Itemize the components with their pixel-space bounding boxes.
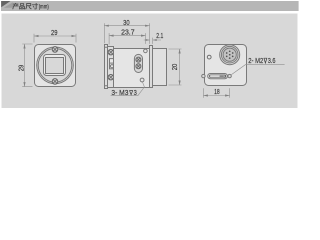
page background <box>0 0 300 112</box>
dimension texts <box>17 18 276 97</box>
svg-text:30: 30 <box>123 18 130 27</box>
arrowheads <box>23 25 229 97</box>
dim 30: line <box>104 25 149 27</box>
side screw top <box>108 50 113 55</box>
leader 2-M2 <box>231 65 285 75</box>
header title 产品尺寸 <box>12 3 38 10</box>
arrows dim23.7 <box>109 35 114 37</box>
dim 20: line <box>179 49 181 85</box>
leader 3-M3 <box>111 82 145 96</box>
svg-text:3- M3: 3- M3 <box>111 88 128 97</box>
dim 30: ext lines <box>104 23 149 44</box>
lens barrel <box>153 49 167 86</box>
dim 2.1: ext line <box>152 38 154 44</box>
dim 18: ext lines <box>203 88 229 98</box>
svg-text:3: 3 <box>134 88 137 97</box>
side recess rect <box>110 59 115 69</box>
side recess hole <box>110 65 113 68</box>
svg-text:20: 20 <box>170 64 179 71</box>
svg-text:29: 29 <box>51 28 58 37</box>
dim 29 top: ext lines <box>34 34 76 43</box>
arrows dim29 left <box>23 44 25 49</box>
content panel <box>2 14 298 109</box>
dim 29 left: ext lines <box>22 44 32 87</box>
lens mount inner ring <box>38 49 72 83</box>
svg-text:2.1: 2.1 <box>156 31 163 40</box>
connector face <box>223 48 236 61</box>
dim 29 left: line <box>24 44 26 87</box>
svg-text:2- M2: 2- M2 <box>248 56 263 65</box>
front body square <box>35 45 76 87</box>
back cover plate <box>105 45 108 89</box>
arrows dim20 <box>179 49 181 54</box>
dim 2.1: tails <box>144 39 161 41</box>
header icon <box>1 1 10 7</box>
side screw bottom <box>108 75 113 80</box>
lens mount outer circle <box>37 47 74 84</box>
arrows dim29 top <box>34 35 39 37</box>
dim 29 top: line <box>34 35 76 37</box>
screw section <box>108 47 114 88</box>
svg-text:(mm): (mm) <box>39 4 49 11</box>
dim 18: line <box>203 95 229 97</box>
obround slot <box>134 54 142 72</box>
M2 screw left <box>202 74 205 77</box>
depth symbol for 2- M2v3.6 <box>264 58 268 63</box>
connector outer circle <box>220 45 240 65</box>
arrows dim30 <box>104 25 109 27</box>
slot screw bottom <box>136 64 141 69</box>
M3 hole top <box>144 49 148 53</box>
M2 screw right <box>228 74 231 77</box>
screw top <box>52 47 58 53</box>
M3 hole bottom <box>140 78 144 82</box>
LED hole <box>207 55 211 59</box>
slot screw top <box>136 57 141 62</box>
svg-text:23.7: 23.7 <box>121 28 135 37</box>
usb connector dark body <box>209 75 226 78</box>
svg-text:18: 18 <box>214 87 220 96</box>
svg-text:3.6: 3.6 <box>268 56 276 65</box>
dim 23.7: ext lines <box>109 33 145 44</box>
mount window rounded square <box>44 55 66 76</box>
dim 20: ext lines <box>169 49 182 85</box>
header bar <box>1 1 299 11</box>
back square <box>205 45 247 86</box>
dim 23.7: line <box>109 35 145 37</box>
arrows dim2.1 <box>146 39 150 41</box>
sensor rect <box>46 58 64 74</box>
main body <box>114 49 150 88</box>
usb connector outline <box>208 74 228 79</box>
connector pins <box>226 50 234 59</box>
usb contacts <box>210 75 225 77</box>
screw bottom <box>52 79 58 85</box>
depth symbol for 3- M3v3 <box>129 58 267 95</box>
svg-text:29: 29 <box>17 65 26 72</box>
front plate <box>150 46 153 88</box>
arrows dim18 <box>203 94 208 96</box>
connector ring2 <box>221 46 238 63</box>
